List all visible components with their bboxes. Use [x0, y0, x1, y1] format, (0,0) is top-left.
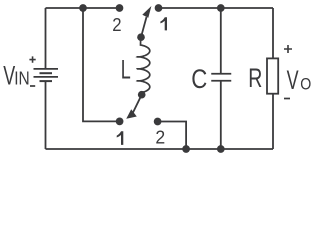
capacitor top junction dot: [217, 4, 225, 12]
wire capacitor branch lower: [220, 81, 222, 149]
resistor R box: [267, 58, 278, 93]
capacitor bottom junction dot: [217, 145, 225, 153]
top contact 2 dot: [116, 4, 124, 12]
inductor top pivot dot: [137, 33, 145, 41]
switch S2 arm (bottom): [133, 95, 142, 113]
wire capacitor branch upper: [220, 8, 222, 74]
switch S1 arrowhead: [142, 6, 151, 18]
bottom junction dot (switch return): [182, 145, 190, 153]
wire right branch lower (from resistor): [272, 94, 274, 149]
inductor bottom pivot dot: [138, 91, 146, 99]
svg-text:L: L: [121, 55, 131, 84]
svg-text:V: V: [3, 61, 15, 90]
svg-text:2: 2: [155, 127, 165, 148]
svg-text:C: C: [191, 65, 207, 94]
Vo plus sign: [284, 45, 292, 53]
wire bottom contact 2 to bottom rail: [158, 122, 187, 150]
battery minus sign: [30, 85, 35, 87]
wire top rail left (Vin+ to switch contact 2): [46, 7, 120, 9]
bottom contact 1 dot: [116, 118, 124, 126]
wire left branch lower (Vin bottom): [45, 81, 47, 149]
top contact 1 dot: [155, 4, 163, 12]
svg-text:IN: IN: [14, 67, 29, 89]
svg-text:O: O: [300, 75, 311, 93]
wire bottom rail: [46, 148, 274, 150]
bottom contact 2 dot: [154, 118, 162, 126]
wire top rail right (switch contact 1 to R branch corner): [159, 7, 274, 9]
battery VIN plates: [34, 69, 59, 81]
svg-text:V: V: [287, 66, 299, 95]
svg-text:R: R: [248, 63, 262, 93]
node A junction dot: [79, 4, 87, 12]
inductor L coil: [137, 37, 149, 94]
switch S2 arrowhead: [126, 109, 137, 118]
label 1 (top): [160, 17, 167, 30]
switch S1 arm (top): [141, 17, 147, 37]
wire right branch upper (to resistor): [272, 8, 274, 58]
svg-text:2: 2: [112, 14, 121, 35]
Vo minus sign: [284, 98, 290, 100]
capacitor C plates: [211, 74, 231, 81]
battery plus sign: [29, 56, 35, 62]
wire left branch upper (Vin top): [45, 8, 47, 69]
wire from node A down to bottom contact 1: [83, 8, 120, 121]
label 1 (bottom): [117, 131, 124, 145]
